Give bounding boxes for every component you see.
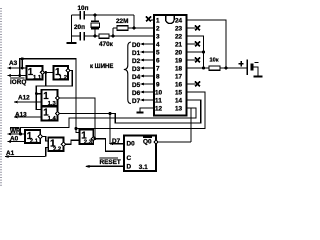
svg-text:470к: 470к	[99, 41, 114, 48]
signal D7	[132, 98, 154, 105]
svg-text:D7: D7	[132, 98, 141, 105]
wire A1 riser to 2.2	[46, 148, 49, 157]
wire 1.2 out down	[36, 71, 72, 110]
node rail A3 tap	[21, 57, 24, 60]
wire 1.1 out to 1.2 in	[44, 72, 54, 74]
svg-text:IORQ: IORQ	[10, 79, 26, 86]
ground battery	[254, 76, 263, 78]
svg-text:А3: А3	[9, 60, 18, 67]
svg-text:2.1: 2.1	[30, 139, 39, 145]
wire osc left vertical	[71, 15, 73, 36]
wire A3 tap down	[21, 59, 23, 68]
svg-text:1: 1	[156, 17, 160, 24]
svg-text:13: 13	[175, 105, 183, 112]
signal IORQ	[7, 74, 27, 86]
node pin18 junction	[202, 67, 205, 70]
svg-text:RESET: RESET	[100, 159, 121, 166]
node osc bottom junction	[94, 35, 97, 38]
no-connect X pin16	[187, 82, 201, 87]
svg-text:18: 18	[175, 65, 183, 72]
gate U1.4	[41, 107, 59, 122]
svg-text:А12: А12	[18, 95, 30, 102]
gate U1.3	[41, 90, 59, 107]
svg-text:D4: D4	[132, 74, 141, 81]
svg-text:16: 16	[175, 81, 183, 88]
wire 10k to battery	[220, 67, 247, 69]
no-connect X pin1	[146, 17, 154, 22]
flip-flop U3.1	[124, 136, 158, 172]
battery GB1	[239, 60, 259, 77]
svg-text:D0: D0	[132, 42, 141, 49]
svg-text:5: 5	[156, 49, 160, 56]
node 1.1 out junction	[44, 71, 47, 74]
wire pin18	[187, 67, 210, 69]
svg-text:14: 14	[175, 97, 183, 104]
svg-text:D2: D2	[132, 58, 141, 65]
gate U2.3	[80, 130, 96, 146]
node pin15 line to rail vertical	[75, 127, 78, 130]
signal A12	[13, 95, 41, 104]
wire 22M to pin2	[128, 27, 154, 29]
svg-text:17: 17	[175, 73, 183, 80]
signal D0	[132, 42, 154, 49]
svg-text:22М: 22М	[116, 18, 128, 25]
svg-text:Q0: Q0	[143, 139, 152, 146]
svg-text:C: C	[127, 155, 132, 162]
page border dotted line	[0, 8, 2, 186]
gate U2.1	[25, 130, 42, 145]
signal D5	[132, 82, 154, 89]
node pin20 junction	[202, 51, 205, 54]
node pin24 to battery junction	[225, 67, 228, 70]
svg-text:D0: D0	[127, 141, 136, 148]
svg-text:21: 21	[175, 41, 183, 48]
svg-text:23: 23	[175, 25, 183, 32]
svg-text:22: 22	[175, 33, 183, 40]
IC U1 notch	[166, 16, 175, 24]
svg-text:2.3: 2.3	[84, 139, 93, 145]
svg-text:9: 9	[156, 81, 160, 88]
svg-text:D3: D3	[132, 66, 141, 73]
node A3 junction	[21, 67, 24, 70]
svg-text:1.2: 1.2	[59, 75, 68, 81]
wire up to 22M	[112, 28, 114, 36]
capacitor C1 10p	[78, 5, 89, 20]
IC U1 body	[154, 15, 187, 116]
signal A0	[7, 136, 26, 144]
svg-text:D6: D6	[132, 90, 141, 97]
svg-text:20: 20	[175, 49, 183, 56]
svg-text:1.4: 1.4	[48, 116, 57, 122]
no-connect X pin23	[187, 26, 201, 31]
wire 2.3 out to FF C input	[95, 139, 124, 152]
signal D3	[132, 66, 154, 73]
wire D7 tap down to FF	[109, 114, 111, 144]
wire junction down to rail86	[45, 73, 47, 87]
wire to 1.3 upper input	[36, 93, 41, 95]
gate U1.1	[26, 66, 44, 81]
node 1.3 upper input	[35, 92, 38, 95]
no-connect X pin19	[187, 58, 201, 63]
svg-text:20п: 20п	[74, 24, 85, 31]
signal D4	[132, 74, 154, 81]
svg-text:1.1: 1.1	[33, 75, 42, 81]
signal RESET	[85, 158, 124, 168]
ground osc	[67, 36, 77, 43]
crystal ZQ1	[91, 15, 100, 36]
wire pin15 bus	[76, 92, 205, 129]
gate U1.2	[54, 66, 71, 81]
resistor R3 10k	[209, 58, 220, 71]
wire top rail corner down	[133, 15, 135, 28]
wire pin24	[187, 20, 227, 68]
signal D2	[132, 58, 154, 65]
wire osc bottom rail	[72, 35, 81, 37]
svg-text:D: D	[127, 164, 132, 171]
signal A3	[7, 60, 27, 69]
node 22M junction	[133, 27, 136, 30]
wire osc top rail	[72, 14, 81, 16]
signal WR	[7, 128, 26, 136]
svg-text:к ШИНЕ: к ШИНЕ	[90, 64, 113, 70]
svg-text:6: 6	[156, 57, 160, 64]
svg-text:12: 12	[155, 105, 163, 112]
svg-text:D5: D5	[132, 82, 141, 89]
wire pin13 down	[21, 108, 197, 134]
brace bus	[124, 42, 131, 104]
ground pin12	[137, 108, 155, 113]
svg-text:11: 11	[155, 97, 162, 104]
svg-text:2.2: 2.2	[53, 146, 62, 152]
wire pin20	[187, 51, 204, 53]
svg-text:D1: D1	[132, 50, 141, 57]
node osc top junction	[94, 14, 97, 17]
resistor R1 470k	[99, 34, 114, 48]
svg-text:19: 19	[175, 57, 183, 64]
wire R1 to pin3	[109, 35, 154, 37]
wire Q0 output to pin13 vertical	[158, 141, 191, 143]
signal D1	[132, 50, 154, 57]
svg-text:7: 7	[156, 65, 160, 72]
svg-text:2: 2	[156, 25, 160, 32]
svg-text:4: 4	[156, 41, 160, 48]
svg-text:10к: 10к	[210, 58, 219, 64]
svg-text:10п: 10п	[78, 5, 89, 12]
svg-text:15: 15	[175, 89, 183, 96]
svg-text:3: 3	[156, 33, 160, 40]
node IORQ junction	[18, 74, 21, 77]
wire pin14 bus	[59, 100, 201, 123]
wire pin22 down	[187, 36, 204, 68]
wire 1.3 out right and down	[59, 98, 95, 139]
node R1 junction	[112, 35, 115, 38]
gate U2.2	[48, 138, 65, 153]
resistor R2 22M	[113, 18, 128, 30]
signal A13	[13, 112, 41, 119]
svg-text:10: 10	[155, 89, 163, 96]
wire 2.2 out to 2.3	[65, 140, 79, 144]
node 1.3 out joins 2.3 out	[94, 137, 97, 140]
signal A1	[4, 150, 46, 158]
wire decode rail	[20, 59, 80, 133]
svg-text:3.1: 3.1	[139, 164, 148, 171]
capacitor C2 20p	[74, 24, 85, 41]
no-connect X pin21	[187, 42, 201, 47]
wire 2.1 out to 2.2	[42, 137, 48, 142]
signal D6	[132, 90, 154, 97]
signal D7 to FF	[109, 138, 125, 145]
node WR junction	[19, 133, 22, 136]
node D7 tap on 1.4 net	[109, 112, 112, 115]
wire Q0 riser	[190, 108, 192, 142]
svg-text:8: 8	[156, 73, 160, 80]
svg-text:24: 24	[175, 17, 183, 24]
